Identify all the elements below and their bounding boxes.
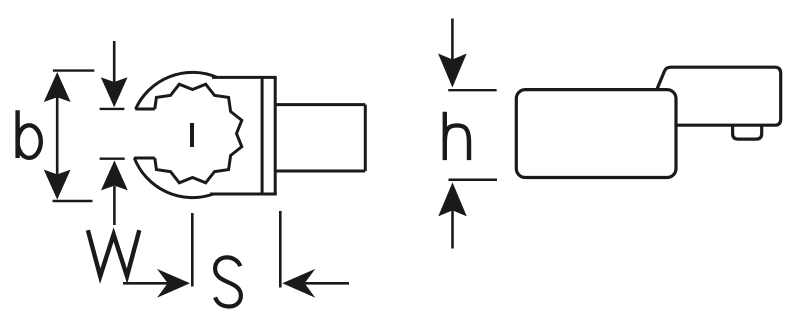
dimension S left arrow shaft: [123, 282, 168, 285]
dimension W top tick: [100, 108, 125, 110]
flange inner vertical line: [261, 77, 264, 194]
dimension W bottom tick: [100, 157, 125, 159]
side view shank rounded rectangle: [516, 90, 676, 178]
side view ring head outline: [657, 67, 781, 125]
dimension b arrowhead bottom: [44, 170, 71, 200]
slot top edge: [135, 108, 155, 111]
12-point internal star profile: [155, 84, 242, 183]
head bottom line: [210, 193, 277, 196]
shank bottom edge: [275, 170, 365, 173]
ring outer arc top: [136, 72, 217, 109]
shank top edge: [275, 103, 365, 106]
dimension W top arrowhead: [101, 77, 128, 107]
dimension h bottom tick: [449, 179, 498, 181]
dimension b arrowhead top: [44, 72, 71, 102]
center slot bar: [190, 123, 194, 147]
dimension S right tick: [279, 211, 282, 288]
dimension h top arrowhead: [438, 54, 467, 88]
flange right edge: [274, 77, 277, 194]
shank right edge: [364, 105, 367, 171]
ring outer arc bottom: [134, 158, 213, 198]
slot bottom edge: [134, 157, 155, 160]
dimension h top tick: [448, 89, 496, 91]
dimension b ticks: [53, 69, 94, 71]
dimension h bottom arrowhead: [438, 182, 467, 216]
label b: [18, 110, 41, 158]
label W: [88, 230, 139, 276]
dimension S right arrow shaft: [304, 282, 349, 285]
dimension S left arrowhead: [157, 269, 190, 298]
label S: [215, 257, 241, 306]
dimension h bottom arrow shaft: [451, 210, 454, 249]
dimension W bottom arrowhead: [101, 160, 128, 190]
label h: [445, 112, 469, 160]
dimension W top arrow shaft: [113, 41, 116, 82]
dimension b double arrow line: [56, 95, 59, 178]
dimension S right arrowhead: [282, 269, 315, 298]
dimension S left tick: [191, 213, 194, 287]
dimension W bottom arrow shaft: [113, 186, 116, 225]
head top line: [212, 76, 277, 79]
dimension h top arrow shaft: [451, 19, 454, 61]
side view bottom tab: [733, 125, 762, 139]
